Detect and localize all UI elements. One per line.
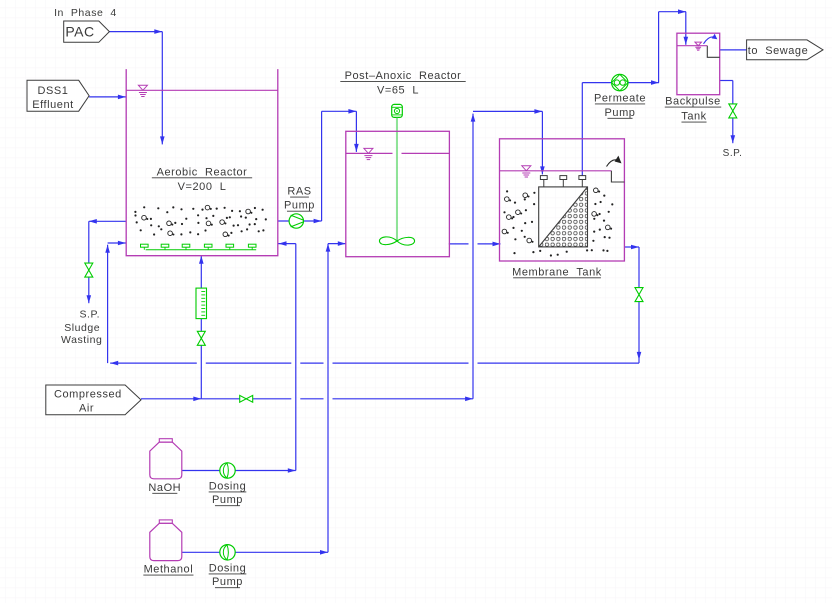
svg-text:Air: Air	[79, 403, 94, 415]
svg-text:Tank: Tank	[681, 111, 706, 123]
svg-text:Methanol: Methanol	[144, 564, 194, 576]
svg-text:Pump: Pump	[605, 107, 636, 119]
svg-text:S.P.: S.P.	[723, 148, 743, 159]
svg-text:DSS1: DSS1	[38, 85, 69, 97]
svg-text:In Phase 4: In Phase 4	[54, 7, 117, 19]
svg-text:Effluent: Effluent	[32, 99, 74, 111]
svg-text:Backpulse: Backpulse	[665, 96, 721, 108]
svg-text:Aerobic Reactor: Aerobic Reactor	[157, 166, 248, 178]
svg-text:Post–Anoxic Reactor: Post–Anoxic Reactor	[345, 70, 462, 82]
svg-text:V=65 L: V=65 L	[377, 85, 419, 97]
svg-text:Pump: Pump	[212, 576, 243, 588]
svg-text:Dosing: Dosing	[209, 562, 247, 574]
svg-text:V=200 L: V=200 L	[178, 181, 227, 193]
svg-text:Membrane Tank: Membrane Tank	[512, 266, 602, 278]
svg-text:Sludge: Sludge	[64, 322, 100, 334]
svg-text:Wasting: Wasting	[61, 334, 102, 346]
svg-text:Compressed: Compressed	[54, 388, 122, 400]
svg-text:Pump: Pump	[212, 494, 243, 506]
svg-text:Dosing: Dosing	[209, 480, 247, 492]
svg-text:to Sewage: to Sewage	[748, 45, 809, 57]
svg-text:RAS: RAS	[287, 186, 311, 198]
svg-text:NaOH: NaOH	[148, 482, 181, 494]
svg-text:Pump: Pump	[284, 200, 315, 212]
svg-text:PAC: PAC	[65, 24, 94, 40]
svg-text:S.P.: S.P.	[79, 309, 100, 321]
svg-text:Permeate: Permeate	[594, 92, 646, 104]
